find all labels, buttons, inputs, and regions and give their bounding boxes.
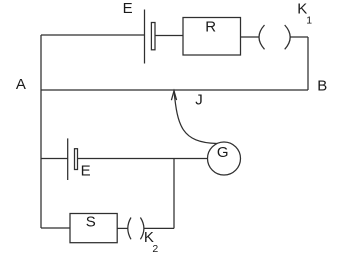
svg-text:2: 2 xyxy=(152,243,158,255)
wire battery to resistor R xyxy=(155,35,183,37)
svg-text:R: R xyxy=(205,18,216,35)
wire middle left xyxy=(41,158,68,160)
key K1 left contact xyxy=(259,25,265,49)
wire A to B xyxy=(41,89,308,91)
svg-text:E: E xyxy=(81,162,91,179)
jockey J arrowhead xyxy=(171,91,176,100)
wire right vertical of lower loop xyxy=(173,159,175,229)
wire K2 to right xyxy=(144,227,174,229)
wire left vertical xyxy=(40,35,42,228)
wire S to key K2 xyxy=(117,227,128,229)
battery E1 short plate xyxy=(151,23,155,50)
jockey J lead curve xyxy=(174,91,217,144)
wire battery E2 to galvanometer xyxy=(78,158,208,160)
svg-text:E: E xyxy=(123,0,133,17)
key K1 right contact xyxy=(285,25,291,49)
wire K1 to right corner xyxy=(290,36,308,38)
resistance box S xyxy=(70,214,117,243)
wire bottom left horizontal xyxy=(41,227,70,229)
battery E1 long plate xyxy=(144,10,146,64)
battery E2 long plate xyxy=(67,138,69,180)
svg-text:1: 1 xyxy=(306,15,312,27)
battery E2 short plate xyxy=(75,149,78,170)
svg-text:J: J xyxy=(195,91,203,108)
svg-text:B: B xyxy=(317,77,327,94)
galvanometer G xyxy=(208,142,241,175)
wire top horizontal left xyxy=(41,34,144,36)
svg-text:S: S xyxy=(86,214,96,231)
svg-text:G: G xyxy=(217,144,229,161)
resistor R box xyxy=(183,18,241,56)
svg-text:A: A xyxy=(16,76,26,93)
wire R to key K1 xyxy=(241,36,259,38)
key K2 left contact xyxy=(128,218,131,240)
key K2 right contact xyxy=(140,218,144,240)
wire right vertical to B xyxy=(307,37,309,90)
